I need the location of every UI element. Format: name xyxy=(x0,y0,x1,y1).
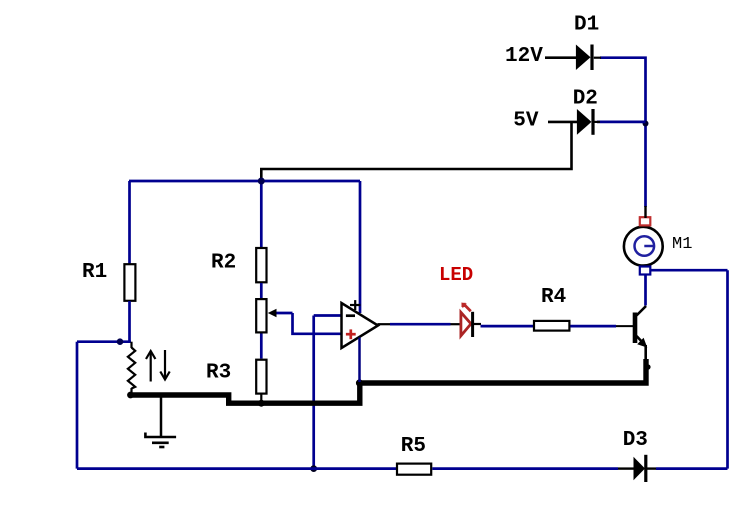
motor M1 body xyxy=(624,227,663,266)
potentiometer wiper arrow xyxy=(274,312,293,315)
wire: 12V to D1 anode xyxy=(545,56,577,59)
wire: R5 to D3 xyxy=(432,467,618,470)
svg-text:D3: D3 xyxy=(623,429,648,452)
wire: op-amp minus input from feedback vertical xyxy=(314,314,341,317)
wire: mid vertical down to R2 top xyxy=(260,181,263,248)
op-amp minus symbol xyxy=(346,314,355,317)
thick ground bus: left segment xyxy=(129,359,646,403)
sensor arrow up xyxy=(150,353,152,382)
wire: R4 to transistor base xyxy=(570,325,616,328)
transistor collector diagonal xyxy=(637,306,647,316)
ground symbol xyxy=(145,433,176,438)
wire: R3 bottom lead xyxy=(260,395,262,404)
node: junction dot under op-amp xyxy=(356,379,363,386)
node: junction dot under R3 xyxy=(258,400,265,407)
wire: LED to R4 xyxy=(481,325,534,328)
resistor R1 xyxy=(124,264,135,301)
wire: motor top lead (black) xyxy=(644,206,646,218)
svg-text:R5: R5 xyxy=(401,435,426,458)
svg-text:R4: R4 xyxy=(541,286,566,309)
op-amp power plus marker xyxy=(350,304,360,306)
wire: LED anode lead (black) xyxy=(451,323,461,325)
wire: 5V anode feed (black) from D2 anode down-left to top bus xyxy=(261,122,571,181)
wire: emitter lead down xyxy=(644,345,647,361)
wire: D3 cathode lead (black) xyxy=(647,467,656,469)
diode D2 xyxy=(577,109,592,135)
wire: top horizontal blue bus y=181 xyxy=(129,180,360,183)
svg-text:5V: 5V xyxy=(513,110,539,133)
svg-text:R2: R2 xyxy=(211,252,236,275)
wire: output to LED anode xyxy=(390,323,451,326)
node: junction dot at top bus xyxy=(258,178,265,185)
wire: R1 bottom lead xyxy=(128,301,131,342)
LED cathode bar xyxy=(471,312,474,337)
wire: R2 to pot xyxy=(260,283,263,298)
svg-text:LED: LED xyxy=(439,264,473,286)
diode D3 xyxy=(634,457,646,480)
sensor zigzag element xyxy=(128,348,135,389)
node: emitter junction bump xyxy=(645,364,650,369)
diode D1 xyxy=(576,45,591,71)
wire: horizontal to left branch xyxy=(77,340,131,343)
motor bottom terminal (blue) xyxy=(640,267,651,275)
wire: LED cathode lead (black) xyxy=(474,323,481,325)
node: junction dot D2 cathode xyxy=(643,121,649,127)
wire: motor bottom to right rail xyxy=(651,269,728,272)
wire: left vertical down to R1 top xyxy=(128,181,131,264)
wire: D1 cathode lead (black) xyxy=(594,57,601,59)
node: junction dot left branch xyxy=(117,338,124,345)
op-amp red plus symbol xyxy=(346,333,356,336)
wire: D2 cathode to rail xyxy=(597,121,646,124)
svg-text:R3: R3 xyxy=(206,362,231,385)
sensor arrow down xyxy=(164,350,166,378)
wire: right rail vertical xyxy=(726,270,729,468)
wire: D3 to right rail xyxy=(656,467,728,470)
transistor emitter diagonal with arrow xyxy=(637,336,645,345)
svg-text:12V: 12V xyxy=(505,45,543,68)
svg-text:R1: R1 xyxy=(82,261,107,284)
sensor lead top (black) xyxy=(130,342,132,348)
node: blob at bus left end xyxy=(127,392,134,399)
motor radius line xyxy=(644,245,654,248)
wire: feedback vertical down to bottom bus xyxy=(312,316,315,469)
wire: D3 anode lead (black) xyxy=(618,467,634,469)
wire: wiper to op-amp plus input xyxy=(293,313,342,334)
resistor R5 xyxy=(397,464,431,475)
wire: base lead (black) xyxy=(616,325,633,327)
svg-text:D2: D2 xyxy=(573,88,598,111)
wire: pot to R3 xyxy=(260,334,263,359)
LED emission arrow xyxy=(465,305,471,311)
resistor R3 xyxy=(256,360,266,394)
LED D4 triangle xyxy=(461,312,471,336)
svg-text:M1: M1 xyxy=(672,235,692,254)
wire: left vertical down xyxy=(76,342,79,469)
motor top terminal (red) xyxy=(640,217,651,225)
ground stub wire xyxy=(160,397,163,437)
op-amp U1 triangle xyxy=(342,303,379,348)
wire: D2 cathode lead (black) xyxy=(594,121,600,123)
node: junction dot bottom bus xyxy=(310,465,317,472)
potentiometer body xyxy=(256,299,266,332)
wire: collector up to motor bottom terminal xyxy=(644,275,647,306)
wire: bottom bus left portion xyxy=(77,467,396,470)
wire: op-amp bottom pin down to bus xyxy=(358,338,361,383)
wire: op-amp output lead (black) xyxy=(378,323,391,325)
sensor lead bottom xyxy=(130,388,132,395)
transistor Q1 base bar xyxy=(633,313,638,344)
motor inner circle xyxy=(635,236,655,256)
wire: right vertical down to op-amp top xyxy=(359,181,362,313)
resistor R4 xyxy=(534,321,569,331)
resistor R2 xyxy=(256,248,266,282)
svg-text:D1: D1 xyxy=(574,14,599,37)
wire: supply rail from D1 down to motor top xyxy=(600,58,646,207)
wire: 5V to D2 anode xyxy=(548,121,578,124)
